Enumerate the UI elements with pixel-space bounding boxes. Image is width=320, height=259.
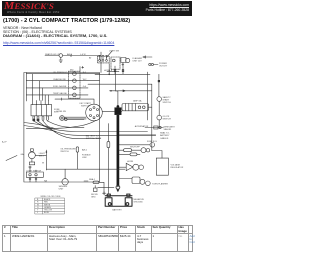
wire: node W vertical	[45, 150, 47, 170]
svg-text:WIRE ASSY: WIRE ASSY	[164, 125, 176, 128]
wire: fusible link to battery	[107, 148, 109, 194]
harness connector J5 body	[154, 126, 158, 129]
wire: key switch bottom curve	[26, 120, 96, 128]
wire: arrow to accessory feed	[143, 56, 152, 58]
wire: harness sweep 4	[48, 121, 85, 127]
svg-text:BATTERY: BATTERY	[160, 134, 170, 137]
svg-text:BOX: BOX	[54, 112, 59, 114]
terminal block on safety drop	[158, 80, 160, 82]
wire: key switch to ammeter	[102, 110, 122, 112]
ammeter M2 terminal a	[138, 106, 141, 109]
cable terminal arrow	[117, 190, 119, 192]
wire: safety switch to oil switch	[158, 101, 160, 115]
svg-text:LIGHT SW: LIGHT SW	[109, 51, 119, 53]
ground under lamp E1	[59, 57, 62, 62]
inline fuse F6 body	[93, 181, 99, 184]
fuse F2 body	[37, 116, 39, 121]
svg-text:AW-1: AW-1	[82, 149, 88, 152]
ammeter M2 element bars	[126, 104, 136, 111]
svg-text:OUTLET: OUTLET	[159, 66, 168, 68]
cluster dashed outline	[69, 71, 81, 98]
wire: oil switch drop	[158, 120, 160, 128]
gauge M1 lower block	[29, 162, 34, 165]
wires: row extensions right	[88, 74, 100, 81]
connector J2 on wire	[65, 118, 68, 121]
turn flasher K2 can b	[146, 181, 151, 186]
wires: row drops to fuse box	[33, 74, 49, 101]
flasher pin terminal 1	[114, 70, 116, 72]
fuse F1 cap	[33, 119, 35, 121]
title	[3, 18, 193, 24]
svg-text:AMP GA: AMP GA	[133, 100, 142, 103]
wire: gauge to node W	[35, 154, 46, 156]
arrowhead on starter feed	[123, 90, 125, 92]
horn H1 coil b	[139, 165, 144, 170]
wires: left edge feeders	[24, 123, 56, 132]
oil pressure switch S5	[157, 115, 162, 120]
instrument cluster enclosure box	[24, 73, 100, 183]
wire: mid horizontal to right bus	[88, 83, 152, 85]
safety start switch S4	[157, 97, 162, 102]
key start switch S1	[86, 104, 103, 121]
svg-text:VOLTAGE: VOLTAGE	[171, 164, 181, 167]
battery cable W2 (thick)	[117, 107, 120, 186]
wire: headlight feed	[45, 55, 101, 57]
ground lug pin	[94, 186, 96, 189]
light switch S3 contacts	[29, 174, 31, 176]
ammeter M2 terminal b	[143, 106, 146, 109]
svg-text:UNIT 12V: UNIT 12V	[133, 61, 143, 63]
flasher unit K1 can	[126, 58, 130, 62]
wire: vertical to cable clamp	[116, 71, 118, 106]
svg-text:GROUND: GROUND	[134, 202, 144, 204]
svg-text:L: L	[37, 212, 38, 214]
light switch S2 terminals	[99, 60, 101, 62]
power outlet connector J1	[149, 63, 151, 65]
svg-text:CABLES: CABLES	[160, 137, 169, 140]
fuse F4 body	[47, 116, 49, 121]
light switch S3 box	[26, 172, 43, 177]
light switch S3 leads	[30, 168, 36, 182]
pointer line A-LP	[6, 156, 17, 161]
svg-text:REGULATOR: REGULATOR	[171, 166, 184, 169]
fusible link F5 body	[107, 141, 110, 147]
node tick on feed	[60, 98, 62, 100]
connector barrel J3	[60, 116, 65, 121]
svg-text:START: START	[163, 99, 170, 102]
header bar	[2, 1, 192, 16]
wire rows: cluster lamp feeds	[26, 74, 88, 95]
lamp E1 headlight	[59, 54, 63, 58]
wire: sender to bus	[64, 169, 66, 178]
cable ring terminal	[116, 185, 120, 189]
junction on starter feed	[111, 90, 112, 91]
inline fuse pill a	[124, 149, 132, 152]
flasher block K1 relay box	[121, 58, 126, 63]
fuse F2 cap	[37, 119, 39, 121]
svg-text:GA: GA	[21, 153, 25, 156]
svg-text:SHUTOFF: SHUTOFF	[130, 147, 141, 149]
light switch S3 lower pins	[29, 178, 31, 180]
wire: harness connector lead	[145, 127, 163, 129]
flasher block K1 dashed outline	[111, 57, 120, 69]
light switch S2 terminal pins	[100, 56, 107, 59]
wire: harness sweep 1	[34, 121, 148, 132]
wire: flasher lead	[119, 178, 132, 180]
wire: ground strap horizontal	[98, 186, 114, 188]
light switch S2 terminal heads	[99, 54, 108, 56]
voltage regulator VR1 box	[156, 158, 168, 175]
svg-text:BATTERY: BATTERY	[112, 208, 122, 211]
enclosure inner left wall	[25, 73, 27, 102]
fuse F1 body	[33, 116, 35, 121]
svg-text:LINK: LINK	[82, 157, 87, 159]
connector ring J4	[150, 143, 155, 148]
wire color code legend	[35, 196, 65, 214]
inline fuse pill b	[130, 153, 137, 156]
wire: safety switch drop	[158, 74, 160, 96]
light switch S2 dashed outline	[97, 56, 109, 63]
fuse box F1-F4 body	[31, 105, 52, 116]
junction node W	[46, 152, 47, 153]
fuse box top pins	[33, 100, 49, 104]
gauge M1	[29, 152, 36, 159]
wire: fusible link drop	[107, 124, 109, 142]
battery BT1	[105, 194, 132, 206]
indicator lamp E4	[73, 86, 77, 90]
wire: regulator top lead	[152, 151, 162, 159]
wire: connector J2 lead	[67, 118, 84, 120]
svg-text:HORN: HORN	[127, 161, 134, 163]
wire: switch box to bus	[108, 64, 110, 75]
header right text	[109, 3, 189, 12]
ground lug SB185	[94, 188, 98, 192]
fuel solenoid L1	[141, 148, 146, 153]
light switch S3 knob	[29, 166, 31, 168]
horn H1	[126, 163, 133, 170]
svg-text:SWITCH: SWITCH	[60, 151, 69, 153]
svg-text:UNIT: UNIT	[59, 188, 65, 190]
svg-text:TURN FLASHER: TURN FLASHER	[152, 182, 168, 185]
wire: S6 drop	[76, 152, 78, 169]
wire: starter feed horizontal	[110, 90, 152, 92]
fuse F3 body	[42, 116, 44, 121]
indicator lamp E5	[73, 93, 77, 97]
wire: J4 connector lead	[119, 144, 150, 146]
wire: right bus 2 vertical	[151, 84, 153, 150]
fuse box cell dividers	[36, 105, 46, 116]
svg-text:SBA4 T.O.: SBA4 T.O.	[160, 132, 170, 135]
indicator lamp E3	[73, 79, 77, 83]
node plus mark under relay	[122, 64, 124, 66]
gauge M1 top terminal	[31, 149, 34, 152]
wires: barrel J3 to key switch	[64, 117, 86, 119]
wire: solenoid lead	[119, 149, 141, 151]
svg-text:BLACK: BLACK	[44, 198, 51, 201]
parts table	[2, 225, 192, 252]
wire: harness sweep 2	[38, 121, 156, 135]
wire: sender bus horizontal	[46, 168, 125, 170]
flasher block K1 contact	[113, 59, 116, 62]
node tick on headlight wire	[70, 54, 72, 56]
wire: alternator lead	[119, 134, 155, 136]
flasher block K1 pins	[115, 63, 123, 75]
key switch S1 terminals	[90, 109, 92, 111]
wire: cluster top feed with plus node	[80, 66, 84, 71]
svg-text:SBA-1: SBA-1	[89, 178, 96, 181]
gauge M1 stems	[31, 151, 33, 162]
svg-text:SW 2: SW 2	[39, 156, 45, 158]
wire: drop to light switch bus	[100, 52, 102, 73]
wire: horn lead	[119, 166, 126, 168]
svg-text:SAFETY: SAFETY	[163, 96, 172, 99]
wire: fuse F6 left stub	[84, 180, 88, 182]
turn flasher K2 body	[132, 177, 140, 184]
junction on accessory bus	[109, 74, 110, 75]
oil pressure switch S6 body	[76, 147, 78, 152]
svg-text:GRD: GRD	[91, 197, 96, 199]
svg-text:SBA185: SBA185	[164, 128, 172, 131]
ammeter M2 body	[122, 104, 149, 111]
wire: accessory bus	[95, 73, 150, 75]
wire: key switch top feed	[55, 99, 94, 104]
battery BT1 plus terminal mark	[103, 192, 106, 195]
wire: horn stub	[107, 70, 119, 72]
svg-text:SWITCH: SWITCH	[163, 119, 172, 121]
wire: ammeter to right bus	[149, 106, 152, 108]
flasher pin terminal 2	[122, 70, 124, 72]
svg-text:A-LP: A-LP	[2, 141, 7, 144]
wire: power outlet lead	[154, 64, 158, 66]
svg-text:FLASHER: FLASHER	[133, 57, 143, 60]
svg-text:W: W	[42, 163, 44, 165]
light switch S2 lever arm	[107, 51, 113, 58]
horn H1 coil a	[133, 164, 139, 170]
indicator lamp E2	[73, 72, 77, 76]
wire: fuse F6 to battery post	[99, 182, 104, 194]
svg-text:AT: AT	[89, 57, 92, 60]
svg-text:KEY START: KEY START	[80, 102, 92, 105]
svg-text:NEGATIVE: NEGATIVE	[134, 198, 145, 201]
sender unit B2	[62, 179, 68, 185]
turn flasher K2 can a	[140, 179, 145, 184]
svg-text:WIRE COLOR CODE: WIRE COLOR CODE	[41, 196, 62, 198]
logo MESSICK'S	[4, 1, 69, 12]
svg-text:BLUE: BLUE	[44, 212, 50, 214]
wire: right bus vertical	[147, 72, 149, 120]
svg-text:SWITCH: SWITCH	[163, 102, 172, 104]
wire: harness sweep 3	[43, 121, 100, 139]
wire: lower accessory lead	[119, 153, 140, 155]
cable clamp	[115, 108, 122, 115]
harness connector J5 ring	[159, 126, 161, 128]
